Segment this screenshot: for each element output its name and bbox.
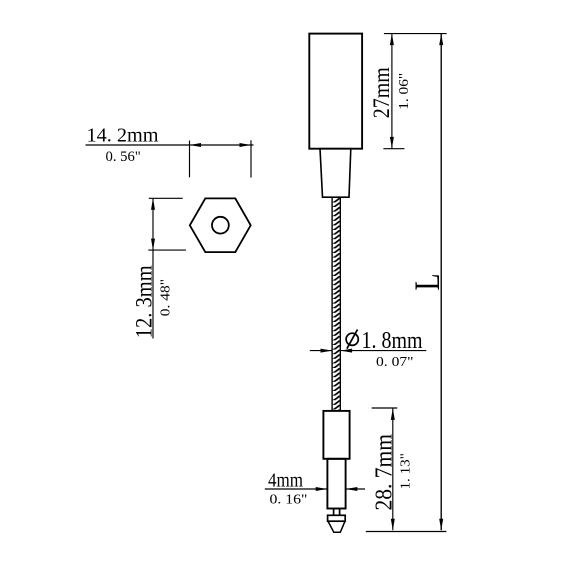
svg-text:1. 13": 1. 13" [399, 453, 414, 489]
svg-text:1. 06": 1. 06" [397, 73, 412, 110]
svg-text:L: L [407, 274, 447, 291]
svg-text:0. 07": 0. 07" [376, 355, 414, 370]
svg-text:0. 48": 0. 48" [159, 279, 174, 316]
svg-text:4mm: 4mm [268, 469, 303, 491]
svg-text:27mm: 27mm [369, 67, 395, 118]
svg-text:14. 2mm: 14. 2mm [87, 125, 159, 147]
svg-text:0. 16": 0. 16" [270, 493, 308, 508]
svg-text:0. 56": 0. 56" [106, 149, 141, 165]
svg-text:12. 3mm: 12. 3mm [132, 265, 157, 338]
svg-text:28. 7mm: 28. 7mm [371, 434, 397, 511]
svg-text:1. 8mm: 1. 8mm [362, 328, 423, 354]
